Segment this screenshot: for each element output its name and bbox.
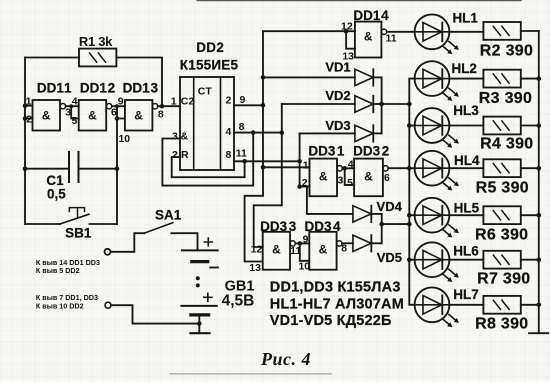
svg-text:6: 6 [384, 172, 390, 184]
wire VD4-VD5 join to LED rail [382, 214, 410, 243]
wire DD3.1 out to DD3.2 tied inputs [342, 168, 354, 185]
diode VD1 [263, 60, 382, 86]
svg-text:13: 13 [249, 262, 261, 274]
wire DD1.1 input stubs [25, 106, 33, 119]
svg-text:DD12: DD12 [80, 81, 115, 96]
wire HL1 to R2 [449, 31, 483, 33]
svg-text:9: 9 [303, 234, 309, 246]
svg-text:SA1: SA1 [155, 208, 182, 223]
LED HL4 [415, 151, 459, 191]
node VD join [379, 102, 384, 107]
node reset loop pin11 [242, 159, 247, 164]
op-amp gate DD3.2 [347, 143, 390, 196]
node reset loop pin8 [251, 130, 256, 135]
svg-text:8: 8 [225, 149, 231, 161]
node VD45 to LED rail [407, 222, 412, 227]
node DD1.3 pin10 [115, 116, 120, 121]
svg-text:R: R [181, 149, 189, 161]
LED HL2 [415, 61, 459, 101]
wire DD3.1 pin2 stub and jog to VD4 [300, 187, 353, 214]
svg-text:DD32: DD32 [353, 143, 389, 158]
svg-text:VD1-VD5 КД522Б: VD1-VD5 КД522Б [270, 313, 392, 329]
svg-text:К155ИЕ5: К155ИЕ5 [180, 58, 239, 73]
LED HL6 [415, 242, 459, 282]
svg-text:0,5: 0,5 [47, 187, 66, 202]
svg-text:VD5: VD5 [377, 250, 402, 265]
svg-text:Рис. 4: Рис. 4 [260, 349, 311, 369]
resistor R8 [483, 296, 520, 314]
wire DD3.3 out to DD3.4 tied inputs [295, 243, 309, 260]
wire HL5 to R6 [449, 214, 483, 216]
wire net Q4 vertical and jog to DD3.3 pin12 [254, 104, 282, 247]
svg-text:HL3: HL3 [453, 103, 479, 118]
svg-text:9: 9 [239, 94, 245, 106]
node rail HL6 [407, 257, 412, 262]
wire R1 left [25, 57, 79, 59]
svg-text:4: 4 [225, 126, 231, 138]
resistor R1 [79, 49, 116, 67]
diode VD5 [342, 235, 402, 265]
scan artifact line top [197, 0, 521, 2]
diode VD4 [353, 199, 403, 222]
node DD1.4 pin12 [344, 29, 349, 34]
node battery common [197, 321, 202, 326]
svg-text:4,5В: 4,5В [222, 293, 255, 310]
wire DD1.4 out to HL1 [387, 31, 415, 33]
wire HL3 feed [409, 125, 415, 127]
wire DD3.2 out to HL4 [388, 167, 415, 169]
node Q2 to VD1 [261, 75, 266, 80]
svg-text:1: 1 [26, 95, 32, 107]
node VD4-VD5 join [379, 222, 384, 227]
resistor R7 [483, 251, 520, 269]
op-amp gate DD1.3 [118, 81, 164, 145]
svg-text:2: 2 [26, 113, 32, 125]
node Q2 pin9 join [261, 103, 266, 108]
svg-text:HL5: HL5 [454, 201, 480, 216]
svg-text:R8 390: R8 390 [475, 316, 528, 333]
node DD1.1 pin1 [23, 103, 28, 108]
svg-text:К выв 10 DD2: К выв 10 DD2 [36, 301, 84, 310]
op-amp gate DD3.3 [249, 219, 301, 274]
node rail HL5 [407, 213, 412, 218]
node C1 right [115, 166, 120, 171]
svg-text:&: & [134, 109, 143, 123]
svg-text:5: 5 [71, 115, 77, 127]
svg-text:&: & [88, 109, 97, 123]
LED HL5 [415, 198, 459, 238]
svg-text:DD31: DD31 [308, 143, 345, 158]
svg-text:CT: CT [198, 85, 213, 97]
node VD to LED rail [407, 102, 412, 107]
svg-text:DD2: DD2 [196, 40, 224, 55]
svg-text:HL4: HL4 [454, 153, 480, 168]
svg-text:&: & [272, 243, 281, 257]
svg-text:HL6: HL6 [453, 243, 479, 258]
svg-text:R7 390: R7 390 [477, 271, 530, 288]
wire R4 to rail [521, 125, 539, 127]
svg-text:R1 3k: R1 3k [79, 34, 113, 49]
resistor R3 [483, 70, 520, 88]
wire LED anode rail [409, 79, 415, 305]
resistor R4 [483, 117, 520, 135]
svg-text:&: & [364, 30, 373, 44]
node DD1.3 pin9 [115, 104, 119, 108]
svg-text:2: 2 [302, 177, 308, 189]
wire R7 to rail [521, 259, 539, 261]
LED HL1 [415, 14, 459, 54]
op-amp gate DD3.1 [302, 143, 345, 196]
svg-text:VD3: VD3 [325, 118, 350, 133]
wire R3 to rail [521, 78, 539, 80]
svg-text:8: 8 [341, 243, 347, 255]
battery bottom terminal bar [190, 332, 209, 334]
svg-text:1: 1 [303, 159, 309, 171]
svg-text:&: & [364, 170, 373, 184]
svg-text:9: 9 [118, 95, 124, 107]
op-amp gate DD1.4 [341, 8, 397, 63]
wire DD1.1 out to DD1.2 inputs [66, 106, 79, 118]
wire R8 to rail [521, 304, 539, 306]
node rail R4 [537, 123, 542, 128]
diode VD3 [300, 118, 382, 142]
pushbutton SB1 [25, 208, 117, 241]
svg-text:3: 3 [172, 130, 178, 142]
svg-text:R2 390: R2 390 [480, 43, 533, 60]
svg-text:VD2: VD2 [325, 88, 350, 103]
svg-text:5: 5 [347, 177, 353, 189]
svg-text:2: 2 [225, 95, 231, 107]
wire DD2 pin8 row [234, 132, 282, 134]
svg-text:1: 1 [171, 95, 177, 107]
svg-text:4: 4 [72, 95, 78, 107]
wire DD2 pin2 reset inner loop [172, 157, 245, 177]
svg-text:DD14: DD14 [353, 8, 389, 23]
svg-text:&: & [181, 130, 189, 142]
capacitor C1 [46, 152, 78, 202]
svg-text:8: 8 [158, 109, 164, 121]
op-amp gate DD1.2 [71, 81, 117, 131]
svg-text:К выв 5 DD2: К выв 5 DD2 [36, 266, 80, 275]
wire DD1.2 out to DD1.3 inputs and down to C1 [112, 106, 125, 224]
svg-text:DD1,DD3 К155ЛА3: DD1,DD3 К155ЛА3 [270, 280, 401, 296]
diode VD2 [282, 88, 382, 112]
svg-text:SB1: SB1 [65, 225, 92, 240]
wire battery minus down [198, 315, 200, 333]
wire R5 to rail [521, 167, 539, 169]
wire DD1.4 tie pins 12-13 [346, 31, 355, 49]
svg-text:C1: C1 [46, 173, 64, 188]
wire HL4 to R5 [449, 167, 483, 169]
svg-text:HL2: HL2 [451, 61, 477, 76]
svg-text:2: 2 [172, 149, 178, 161]
wire R2 to rail [521, 30, 539, 32]
wire R1 right + feedback vertical [116, 58, 162, 107]
node Q4 pin8 join [280, 130, 285, 135]
svg-text:C2: C2 [181, 95, 195, 107]
svg-text:&: & [42, 109, 51, 123]
op-amp gate DD1.1 [26, 81, 72, 131]
wire left rail [24, 58, 26, 225]
svg-text:11: 11 [236, 148, 247, 160]
svg-text:VD1: VD1 [325, 60, 350, 75]
svg-text:R5 390: R5 390 [476, 179, 529, 196]
resistor R5 [483, 159, 520, 177]
svg-text:HL1-HL7 АЛ307АМ: HL1-HL7 АЛ307АМ [270, 296, 404, 312]
resistor R6 [483, 206, 520, 224]
node Q8 pin11 join [297, 159, 302, 164]
svg-text:3: 3 [337, 174, 343, 186]
wire C1 row [25, 168, 117, 170]
parts list text block [270, 280, 404, 329]
svg-text:10: 10 [118, 133, 130, 145]
svg-text:4: 4 [348, 159, 354, 171]
battery GB1 [181, 238, 254, 315]
svg-text:R4 390: R4 390 [480, 135, 533, 152]
svg-text:VD4: VD4 [377, 199, 403, 214]
wire HL7 to R8 [449, 304, 483, 306]
svg-text:10: 10 [298, 261, 310, 273]
svg-text:R3 390: R3 390 [479, 90, 532, 107]
node rail R6 [537, 213, 542, 218]
scan artifact line bottom [170, 373, 331, 375]
node rail HL4 [407, 166, 412, 171]
node rail R7 [537, 257, 542, 262]
wire right supply rail [529, 31, 548, 333]
wire R6 to rail [521, 214, 539, 216]
node Q2 to DD3.1 pin1 [261, 165, 266, 170]
svg-text:12: 12 [251, 244, 263, 256]
node rail R8 [537, 303, 542, 308]
svg-text:DD13: DD13 [123, 81, 159, 96]
wire net Q8 vertical VD3/VD4 [299, 133, 301, 186]
wire net Q2 vertical and jog to DD3.3 pin13 [245, 31, 263, 261]
svg-text:R6 390: R6 390 [475, 227, 528, 244]
node C1 left [23, 166, 28, 171]
resistor R2 [483, 22, 520, 40]
node rail HL3 [407, 123, 412, 128]
terminal to pins 7 [105, 302, 111, 308]
wire HL6 feed [409, 259, 415, 261]
node DD1.1 pin2 [23, 116, 28, 121]
LED HL7 [415, 287, 459, 327]
node tie DD3.2 pins 4-5 [342, 166, 347, 171]
node tie DD1.2 pins 4-5 [69, 104, 73, 108]
node rail R5 [537, 166, 542, 171]
wire DD2 pin3 reset outer loop [162, 133, 253, 186]
wire HL2 to R3 [449, 78, 483, 80]
wire DD2 pin11 row [234, 160, 300, 162]
svg-text:12: 12 [341, 21, 353, 33]
svg-text:8: 8 [239, 121, 245, 133]
node Q8 DD3.1 pin2 [297, 184, 302, 189]
wire HL5 feed [409, 214, 415, 216]
svg-text:HL1: HL1 [452, 11, 478, 26]
svg-text:DD11: DD11 [37, 81, 72, 96]
terminal to pins 14 [105, 249, 111, 255]
wire pin12 row to DD1.4 [263, 30, 355, 32]
svg-text:HL7: HL7 [453, 287, 479, 302]
wire HL6 to R7 [449, 259, 483, 261]
svg-text:&: & [319, 170, 328, 184]
wire DD2 pin9 row [234, 104, 263, 106]
switch SA1 [105, 208, 198, 255]
svg-text:11: 11 [386, 32, 397, 44]
wire DD1.3 out to DD2 C2 [158, 105, 180, 107]
wire HL3 to R4 [449, 125, 483, 127]
wire DD3.1 pin1 stub from Q2 [263, 166, 310, 168]
wire common terminal to battery [111, 305, 199, 323]
counter U DD2 K155IE5 [171, 40, 247, 170]
LED HL3 [415, 108, 459, 148]
svg-text:&: & [319, 243, 328, 257]
node rail R3 [537, 76, 542, 81]
node R1 feedback junction [160, 104, 165, 109]
wire VD1-VD3 cathode join [382, 77, 410, 133]
op-amp gate DD3.4 [298, 219, 347, 273]
node tie DD3.4 pins 9-10 [298, 241, 303, 246]
